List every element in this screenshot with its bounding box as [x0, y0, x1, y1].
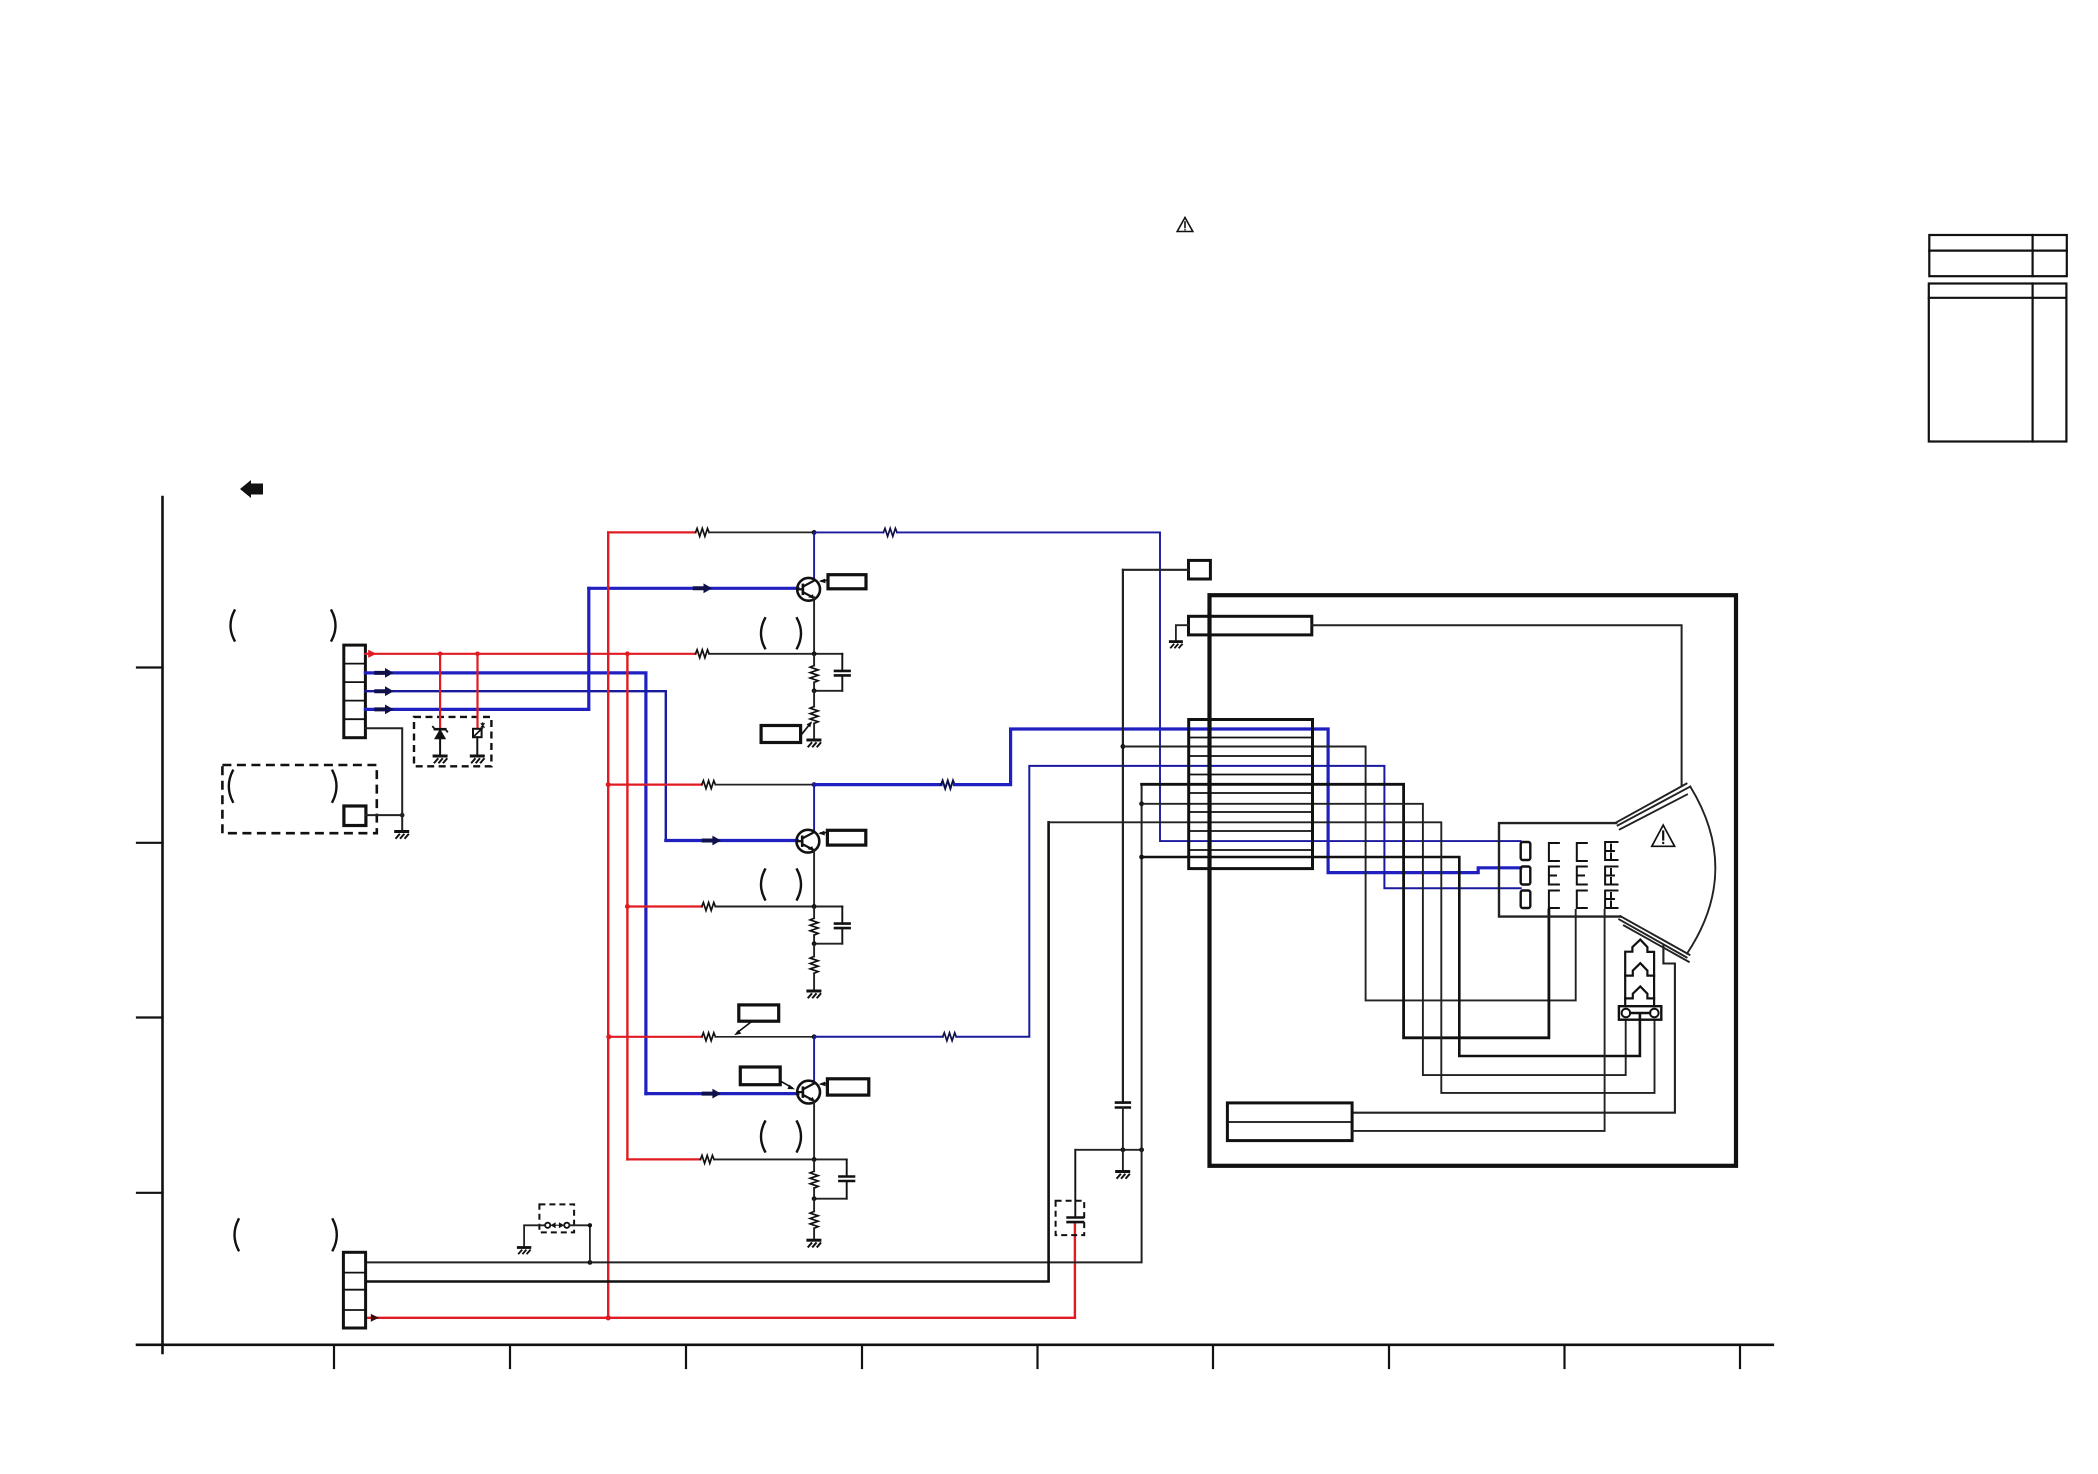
wire spark gap left to ground — [524, 1225, 545, 1246]
connector J1 (5-pin) — [344, 645, 366, 738]
wire row8 thick to yoke connector middle — [1142, 857, 1640, 1056]
resistor stage3 output series — [943, 1033, 957, 1041]
wire square pad to x1122.9 — [1123, 569, 1189, 571]
arrow pot wiper stage1 — [801, 724, 811, 736]
CRT faceplate arc — [1687, 787, 1715, 954]
wire stage1 collector blue vertical — [813, 532, 815, 579]
signal arrow stage1 base — [693, 583, 712, 593]
connector J2 (4-pin bottom) — [343, 1252, 365, 1328]
wire stage2 feed black to collector node — [715, 784, 814, 786]
wire stage3 collector blue vertical — [813, 1037, 815, 1084]
red arrowhead J1 pin1 — [368, 650, 376, 658]
wire bottom connector row1 to CRT G1 — [1352, 910, 1605, 1131]
node row2 tap — [1121, 744, 1126, 749]
node junction pin1/varistor column — [475, 652, 480, 657]
resistor stage1 feed — [696, 528, 710, 536]
resistor stage1 emitter R — [810, 666, 818, 683]
arrow label Q1 — [822, 579, 829, 582]
wire stage2 RC joint — [814, 943, 842, 945]
capacitor stage3 emitter C — [839, 1159, 854, 1198]
signal arrow stage3 base — [702, 1089, 721, 1099]
resistor stage1 output series — [883, 528, 897, 536]
socket pin column1 cathodes — [1521, 842, 1531, 908]
DAG ground wire CRT to J2 — [1352, 945, 1675, 1112]
wire stage2 emitter vertical — [813, 850, 815, 907]
shield contact box — [344, 806, 366, 826]
spark gap symbol — [545, 1223, 569, 1228]
resistor stage1 input series (on pin1 line) — [696, 650, 710, 658]
table top-right B — [1929, 284, 2067, 442]
table top-right A — [1929, 235, 2067, 276]
zener diode D1 — [439, 654, 441, 729]
wire stage1 base thick blue — [589, 587, 798, 590]
surge arrester Z1 — [476, 654, 478, 728]
ladder connector CRT board — [1189, 720, 1313, 869]
resistor stage2 emitter R2 — [810, 956, 818, 973]
page back-reference arrow icon — [240, 480, 263, 498]
transistor Q1 — [797, 578, 820, 601]
wire row4 thick to staircase and CRT G2 — [1142, 784, 1549, 1038]
capacitor on x1122.9 — [1116, 1103, 1130, 1108]
wire J1 pin1 red line to stage1 input resistor — [365, 653, 695, 655]
parenthesis label pair upper-left — [231, 611, 336, 641]
node stage3 emitter/input — [812, 1157, 817, 1162]
ground x1122.9 — [1117, 1172, 1130, 1179]
ground stage3 — [808, 1240, 821, 1247]
ground top connector — [1176, 625, 1189, 640]
square pad — [1189, 560, 1211, 579]
parenthesis label pair stage2 — [761, 870, 801, 900]
node stage1 emitter/input — [812, 651, 817, 656]
arrowhead J2 pin4 — [371, 1314, 379, 1322]
label box Q1 — [828, 575, 866, 589]
wire anode HV from top connector to CRT funnel — [1312, 625, 1682, 786]
bottom connector CRT board — [1227, 1103, 1352, 1141]
wire red rail bottom horizontal — [366, 1317, 1075, 1319]
ground pin5 — [396, 832, 409, 839]
wire stage3 base thick blue — [646, 1092, 798, 1095]
parenthesis label pair stage1 — [761, 618, 801, 648]
signal arrow pin4 — [374, 705, 393, 715]
wire stage1 emitter vertical — [813, 597, 815, 654]
ground stage1 — [808, 740, 821, 747]
spark gap dashed box — [539, 1204, 574, 1232]
CRT funnel bottom edge double line — [1620, 916, 1689, 955]
wire J1 pin4 blue to stage1 base vertical — [365, 588, 588, 709]
wire stage1 output blue left part — [814, 531, 883, 533]
wire red rail vertical x627 — [626, 654, 628, 1160]
ground D1 — [434, 756, 447, 763]
wire stage3 input red — [627, 1158, 700, 1160]
wire stage1 feed black to collector node — [709, 531, 814, 533]
ground stage2 — [808, 991, 821, 998]
wire stage3 output blue — [814, 1036, 943, 1038]
wire stage2 base blue — [666, 839, 797, 842]
label box stage1 pot — [761, 726, 801, 743]
resistor stage2 output series — [941, 781, 955, 789]
wire stage1 output blue to CRT cathode row7 — [897, 532, 1521, 841]
label box Q2 — [827, 830, 865, 845]
wire J1 pin2 blue to stage3 base vertical — [365, 673, 646, 1094]
label box Q3 — [827, 1079, 868, 1095]
dashed remote/shield box lower-left — [222, 765, 376, 833]
wire stage2 output thick blue to ladder row1 and CRT cathode — [955, 729, 1521, 873]
arrow label Q3 — [822, 1082, 828, 1085]
wire shield box to pin5 column — [366, 814, 402, 816]
warning triangle in CRT — [1652, 825, 1675, 846]
node stage1 collector feed — [812, 530, 817, 535]
wire vertical x1141.6 — [366, 784, 1142, 1262]
resistor stage3 emitter R2 — [810, 1211, 818, 1228]
resistor stage3 emitter R — [810, 1171, 818, 1188]
wire stage1 feed red from supply rail — [608, 531, 695, 533]
border frame left line — [137, 497, 1773, 1368]
wire vertical x1122.9 upper — [1122, 570, 1124, 1103]
arrow label stage3 feed resistor — [738, 1021, 753, 1032]
deflection yoke coils — [1625, 940, 1654, 1007]
arrow label Q2 — [821, 831, 828, 834]
node stage2 emitter/input — [812, 904, 817, 909]
ground Z1 — [471, 756, 484, 763]
capacitor stage2 emitter C — [835, 907, 850, 944]
CRT funnel top edge double line — [1616, 784, 1686, 823]
wire stage3 RC joint — [814, 1198, 847, 1200]
wire stage2 collector blue vertical — [813, 785, 815, 833]
parenthesis label pair lower-left — [235, 1219, 337, 1250]
wire red rail vertical x608 — [607, 532, 609, 1317]
capacitor stage1 emitter C — [835, 654, 850, 691]
wire row2 horizontal to ladder and staircase — [1123, 747, 1576, 1001]
capacitor in dashed box — [1068, 1150, 1083, 1222]
wire stage1 input black — [709, 653, 842, 655]
label box stage3 base — [740, 1067, 780, 1085]
dashed protection box with zener and arrester — [414, 717, 491, 766]
transistor Q3 — [797, 1081, 820, 1104]
wire x1122.9 lower to ground — [1122, 1108, 1124, 1171]
label box stage3 feed resistor — [739, 1005, 779, 1021]
resistor stage3 input series — [700, 1155, 714, 1163]
parenthesis label pair in dashed box — [229, 771, 337, 802]
wire stage2 input black — [715, 906, 842, 908]
wire stage3 emitter vertical — [813, 1101, 815, 1159]
warning triangle top center — [1177, 218, 1193, 232]
dashed box filter cap — [1056, 1201, 1085, 1235]
resistor stage2 emitter R — [810, 918, 818, 935]
wire stage3 input black — [714, 1158, 847, 1160]
node junction pin1/zener column — [438, 652, 443, 657]
wire row6 to yoke connector right — [1049, 822, 1655, 1093]
wire J1 pin3 blue to stage2 base vertical — [365, 691, 665, 840]
node junction pin5/shield box wire — [400, 813, 405, 818]
resistor stage1 bias pot — [810, 707, 818, 724]
wire stage1 RC joint — [814, 690, 842, 692]
resistor stage3 feed — [702, 1033, 716, 1041]
wire vertical x1048.6 — [366, 822, 1049, 1281]
resistor stage2 input series — [702, 903, 716, 911]
wire stage2 output thick blue — [814, 783, 941, 786]
wire stage2 feed red — [608, 783, 702, 785]
node stage3 collector feed — [812, 1034, 817, 1039]
socket pin column4 — [1605, 842, 1617, 908]
signal arrow stage2 base — [702, 836, 721, 846]
top connector (heater supply) — [1189, 616, 1312, 635]
signal arrow pin3 — [374, 686, 393, 696]
node stage2 collector feed — [812, 782, 817, 787]
wire red riser to filter cap — [1074, 1222, 1076, 1318]
signal arrow pin2 — [374, 668, 393, 678]
wire grounded net horizontal y1149.8 — [1075, 1149, 1141, 1151]
CRT socket body — [1499, 823, 1620, 917]
wire stage3 output blue to ladder row3 and CRT cathode — [956, 766, 1520, 1037]
resistor stage2 feed — [702, 781, 716, 789]
socket pin column2 — [1549, 843, 1559, 908]
arrow label stage3 base — [780, 1081, 792, 1088]
wire row5 to yoke connector left — [1142, 804, 1626, 1075]
wire stage3 feed red — [609, 1036, 702, 1038]
wire stage2 input red — [627, 905, 701, 907]
wire spark gap right to J2 pin1 line — [569, 1225, 590, 1262]
wire J1 pin5 black to ground via shield box — [365, 728, 402, 830]
socket pin column3 — [1577, 843, 1587, 908]
parenthesis label pair stage3 — [761, 1122, 801, 1152]
yoke connector — [1619, 1006, 1661, 1020]
wire stage3 feed black to collector node — [715, 1036, 814, 1038]
transistor Q2 — [797, 830, 820, 853]
